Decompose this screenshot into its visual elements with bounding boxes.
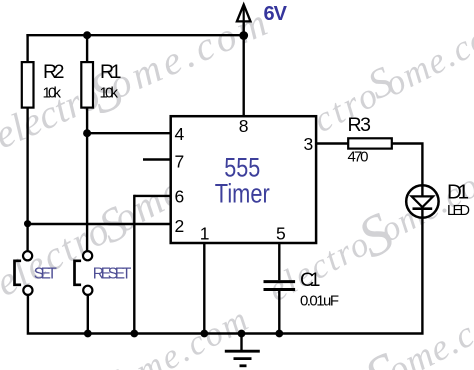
wire R3 to LED: [392, 144, 423, 185]
LED D1: [406, 185, 438, 217]
wire pin 7 stub: [143, 158, 170, 160]
resistor R3: [348, 138, 392, 148]
svg-text:470: 470: [348, 149, 369, 166]
wire R2 top: [26, 34, 28, 62]
wire pin 8 supply: [242, 7, 244, 117]
wire pin 5 to C1: [278, 243, 280, 280]
wire LED anode inner: [421, 185, 423, 197]
svg-text:R3: R3: [348, 114, 372, 136]
wire RESET bottom: [87, 295, 89, 334]
wire C1 to rail: [278, 291, 280, 334]
svg-text:Timer: Timer: [215, 179, 270, 209]
wire R2 bottom to SET: [26, 108, 28, 252]
wire LED cathode inner: [421, 209, 423, 219]
wire pin 6 horizontal: [134, 195, 170, 197]
svg-text:D1: D1: [447, 181, 469, 204]
capacitor C1: [264, 282, 296, 290]
svg-text:SET: SET: [34, 266, 58, 283]
wire pin 2: [28, 223, 170, 225]
wire R1 top: [86, 34, 88, 62]
svg-text:6: 6: [175, 187, 185, 207]
svg-text:8: 8: [239, 116, 249, 136]
wire top rail: [26, 34, 243, 36]
svg-text:10k: 10k: [100, 85, 119, 102]
switch RESET: [75, 251, 93, 295]
svg-text:5: 5: [276, 224, 286, 244]
resistor R2: [22, 62, 34, 108]
svg-text:4: 4: [175, 124, 185, 144]
svg-text:R1: R1: [100, 61, 122, 83]
svg-text:0.01uF: 0.01uF: [300, 293, 339, 310]
node supply: [239, 31, 248, 40]
wire pin 1: [203, 243, 205, 334]
svg-text:LED: LED: [447, 203, 470, 219]
ground: [225, 351, 260, 366]
switch SET: [15, 251, 33, 295]
svg-text:R2: R2: [43, 61, 65, 83]
svg-text:RESET: RESET: [93, 266, 132, 283]
wire pin 4: [87, 132, 170, 134]
IC U1 555 timer: [171, 116, 316, 243]
resistor R1: [81, 62, 93, 108]
svg-text:C1: C1: [300, 269, 321, 291]
node pin1 / rail: [200, 330, 208, 338]
wire pin 6 vertical: [133, 195, 135, 334]
node pin 4 / R1: [83, 129, 91, 137]
wire pin 3 to R3: [316, 142, 348, 144]
svg-text:10k: 10k: [43, 85, 62, 102]
svg-text:1: 1: [200, 224, 210, 244]
node C1 / rail: [275, 330, 283, 338]
node pin6 / rail: [130, 330, 138, 338]
wire R1 bottom to RESET: [86, 108, 88, 252]
svg-text:7: 7: [175, 152, 185, 172]
supply arrow 6V: [237, 5, 251, 22]
node ground / rail: [238, 330, 246, 338]
svg-text:3: 3: [304, 134, 314, 154]
node RESET / rail: [84, 330, 92, 338]
wire bottom rail: [28, 219, 423, 334]
svg-text:6V: 6V: [264, 3, 288, 25]
ground stub: [240, 334, 242, 351]
node pin 2 / R2: [24, 220, 31, 227]
node R1 top: [83, 31, 91, 39]
svg-text:2: 2: [175, 216, 185, 236]
